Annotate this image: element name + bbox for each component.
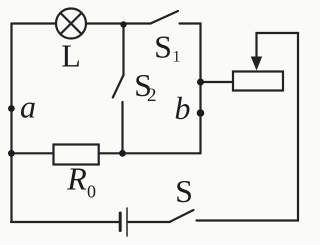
svg-text:2: 2 bbox=[147, 85, 157, 106]
svg-text:1: 1 bbox=[173, 49, 181, 66]
svg-text:R: R bbox=[66, 160, 87, 196]
svg-text:S: S bbox=[154, 29, 172, 65]
svg-text:b: b bbox=[175, 90, 191, 126]
svg-text:L: L bbox=[61, 38, 81, 74]
svg-text:S: S bbox=[175, 173, 193, 209]
svg-text:0: 0 bbox=[87, 182, 96, 202]
svg-text:a: a bbox=[20, 89, 36, 125]
